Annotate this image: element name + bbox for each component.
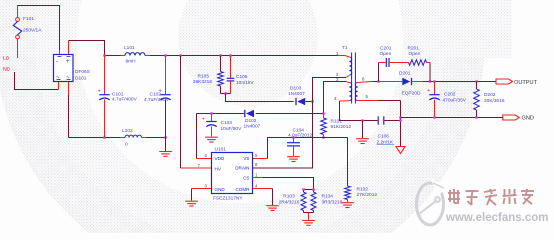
junction aux net / R101 — [322, 112, 324, 114]
svg-text:Open: Open — [409, 51, 421, 57]
junction drain net / D103 — [311, 100, 313, 102]
svg-text:DRAIN: DRAIN — [235, 166, 249, 171]
wire drain net: T1 pin2 to U101 DRAIN — [253, 78, 347, 169]
svg-text:VDD: VDD — [215, 156, 225, 161]
connector GND — [503, 115, 520, 120]
junction C202 top — [433, 80, 435, 82]
junction VS net / R101 — [322, 136, 324, 138]
svg-text:www.elecfans.com: www.elecfans.com — [445, 212, 548, 224]
wire VS net — [253, 158, 268, 160]
ground C102 — [159, 151, 172, 153]
resistor R105 — [220, 56, 222, 72]
junction clamp — [224, 92, 226, 94]
junction aux net / C103 — [210, 112, 212, 114]
junction primary gnd — [361, 119, 363, 121]
svg-text:N0: N0 — [3, 67, 10, 73]
wire bridge - down to bottom rail — [68, 95, 70, 138]
watermark top band — [408, 0, 512, 58]
svg-text:39K3216: 39K3216 — [193, 79, 213, 85]
svg-text:Open: Open — [380, 51, 392, 57]
wire secondary gnd line — [401, 117, 503, 119]
svg-text:~: ~ — [66, 75, 70, 81]
svg-text:-: - — [56, 59, 58, 65]
wire D102 line — [197, 113, 245, 115]
junction D202 bottom — [475, 116, 477, 118]
svg-text:C201: C201 — [380, 46, 392, 52]
svg-text:470uF/35V: 470uF/35V — [443, 97, 467, 103]
capacitor C105 — [230, 56, 232, 79]
svg-text:EQP20D: EQP20D — [402, 91, 421, 97]
svg-text:R101: R101 — [331, 119, 343, 125]
wire bridge + to top rail — [69, 41, 105, 56]
junction top rail / C101 — [103, 54, 105, 56]
svg-text:GND: GND — [522, 116, 534, 122]
junction snubber right — [429, 80, 431, 82]
svg-text:DF06S: DF06S — [75, 69, 90, 75]
svg-text:COMR: COMR — [235, 187, 250, 192]
inductor L102 — [125, 135, 141, 137]
svg-text:U101: U101 — [215, 147, 227, 153]
wire output line — [364, 81, 372, 84]
svg-text:3R3/3216: 3R3/3216 — [322, 200, 343, 206]
svg-text:+: + — [427, 88, 430, 94]
junction C202 bottom — [433, 116, 435, 118]
junction top rail / R105 — [219, 54, 221, 56]
inductor L101 — [125, 53, 145, 56]
wire aux pin3 — [324, 82, 347, 114]
capacitor C106 — [377, 116, 379, 124]
fuse F101 — [17, 6, 19, 18]
svg-text:R105: R105 — [198, 74, 210, 80]
capacitor C102 — [165, 56, 167, 95]
svg-text:C106: C106 — [378, 134, 390, 140]
svg-text:C104: C104 — [293, 127, 305, 133]
svg-text:F101: F101 — [23, 16, 34, 22]
svg-text:R201: R201 — [408, 46, 420, 52]
svg-text:D102: D102 — [245, 118, 257, 124]
pin leads T1 — [338, 55, 346, 57]
svg-text:HV: HV — [215, 166, 222, 171]
diode D201 — [402, 78, 410, 85]
svg-text:FSEZ1317NY: FSEZ1317NY — [213, 195, 243, 201]
svg-text:4.7uF/400V: 4.7uF/400V — [144, 97, 170, 103]
wire clamp join — [221, 93, 231, 95]
wire snubber branch — [378, 63, 380, 82]
svg-text:+: + — [98, 89, 101, 95]
svg-text:R103: R103 — [283, 194, 295, 200]
junction bottom rail / C101 — [103, 136, 105, 138]
svg-text:0: 0 — [125, 142, 128, 148]
svg-text:C103: C103 — [221, 120, 233, 126]
wire GND pin — [192, 188, 212, 190]
svg-text:VS: VS — [243, 156, 249, 161]
resistor R103 — [304, 189, 314, 191]
capacitor C104 — [293, 138, 295, 143]
capacitor C202 — [434, 82, 436, 95]
svg-text:1N4007: 1N4007 — [288, 91, 305, 97]
junction top rail / C102 — [164, 54, 166, 56]
svg-text:R102: R102 — [357, 187, 369, 193]
svg-text:GND: GND — [215, 187, 226, 192]
svg-text:+: + — [66, 59, 70, 65]
bridge rectifier D101 — [59, 50, 61, 55]
capacitor C201 — [385, 58, 387, 67]
svg-text:1N4007: 1N4007 — [244, 124, 261, 130]
wire CS — [253, 177, 263, 179]
resistor D202 — [476, 82, 478, 90]
svg-text:4.7uF/400V: 4.7uF/400V — [112, 96, 138, 102]
svg-text:250V/1A: 250V/1A — [23, 28, 42, 34]
svg-text:C202: C202 — [444, 92, 456, 98]
svg-text:D101: D101 — [75, 76, 87, 82]
svg-text:2R4/3216: 2R4/3216 — [279, 200, 300, 206]
svg-text:L101: L101 — [124, 45, 135, 51]
junction D202 top — [475, 80, 477, 82]
wire COMR — [253, 188, 273, 190]
svg-text:L0: L0 — [3, 56, 9, 62]
junction top rail / C105 — [229, 54, 231, 56]
svg-text:10n/1kV: 10n/1kV — [236, 80, 254, 86]
wire pin4 net — [340, 101, 378, 121]
svg-text:CS: CS — [243, 176, 249, 181]
svg-text:9mH: 9mH — [126, 59, 137, 65]
resistor R134 — [313, 190, 315, 193]
resistor R201 — [409, 60, 427, 66]
svg-text:D202: D202 — [484, 92, 496, 98]
svg-text:T1: T1 — [342, 45, 348, 51]
wire N0 to bridge — [15, 72, 59, 90]
capacitor C101 — [104, 56, 106, 95]
wire top rail — [105, 55, 121, 57]
wire pin5 net — [366, 100, 378, 102]
op-amp U101 FSEZ1317NY — [212, 153, 253, 194]
wire fuse top loop — [18, 6, 60, 51]
junction top rail / HV — [179, 54, 181, 56]
resistor R102 — [347, 138, 349, 187]
wire HV feed — [180, 56, 182, 169]
capacitor C103 — [211, 114, 213, 122]
ground primary — [362, 121, 364, 139]
svg-text:OUTPUT: OUTPUT — [514, 80, 538, 86]
junction snubber left — [377, 80, 379, 82]
diode D102 — [244, 110, 246, 117]
junction secondary gnd — [399, 116, 401, 118]
secondary ground triangle — [396, 147, 405, 154]
svg-text:D103: D103 — [290, 86, 302, 92]
svg-text:20K/3016: 20K/3016 — [484, 98, 505, 104]
wire VDD feed — [196, 114, 198, 159]
watermark logo — [417, 183, 444, 225]
resistor R101 — [323, 114, 325, 119]
svg-text:L102: L102 — [122, 128, 133, 134]
svg-text:C105: C105 — [236, 74, 248, 80]
svg-text:10uF/50V: 10uF/50V — [221, 126, 243, 132]
junction bottom rail / C102 — [164, 136, 166, 138]
wire bottom rail — [69, 137, 121, 139]
connector OUTPUT — [496, 79, 513, 84]
svg-text:~: ~ — [56, 75, 60, 81]
watermark text — [448, 189, 534, 205]
svg-text:4.0uF/2012: 4.0uF/2012 — [288, 133, 313, 139]
junction VS net / C104 — [292, 136, 294, 138]
svg-text:C102: C102 — [150, 92, 162, 98]
svg-text:27K/2012: 27K/2012 — [357, 192, 378, 198]
svg-text:+: + — [202, 117, 205, 123]
svg-text:R134: R134 — [322, 194, 334, 200]
svg-text:D201: D201 — [399, 71, 411, 77]
svg-text:91K/2012: 91K/2012 — [331, 124, 352, 130]
diode D103 — [295, 98, 297, 105]
